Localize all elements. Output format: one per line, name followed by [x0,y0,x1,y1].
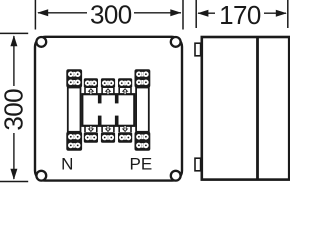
enclosure front view (300x300 box) [35,37,182,181]
fuse base body (3-pole) [82,94,134,126]
wall clip top [195,43,201,56]
wire entry arrows bottom [84,126,132,133]
pole divider slots [98,95,119,125]
lid screw top-right [171,37,181,47]
top terminals pole 2 [101,78,115,88]
svg-text:PE: PE [130,155,153,174]
lid parting line [256,37,259,180]
N rail body (left) [68,88,81,132]
svg-text:170: 170 [219,0,261,30]
lid screw bottom-right [171,171,181,181]
bottom terminals pole 3 [118,132,132,143]
PE rail terminal block bottom [135,132,151,151]
bottom terminals pole 2 [101,132,115,143]
svg-text:300: 300 [0,89,28,131]
dimension 300 left (front view height) [0,33,28,181]
N rail terminal block top [66,69,82,87]
dimension 300 top (front view width) [35,0,183,30]
wire entry arrows top [84,88,132,95]
lid screw top-left [36,37,46,47]
dimension 170 top (side view depth) [196,0,288,30]
svg-text:300: 300 [90,0,132,30]
bottom terminals pole 1 [84,132,98,143]
wall clip bottom [195,158,201,171]
enclosure side view (170 deep) [202,37,289,180]
svg-text:N: N [61,155,73,174]
PE rail body (right) [136,88,149,132]
N rail terminal block bottom [66,132,82,151]
top terminals pole 3 [118,78,132,88]
PE rail terminal block top [135,69,151,87]
top terminals pole 1 [84,78,98,88]
lid screw bottom-left [36,171,46,181]
